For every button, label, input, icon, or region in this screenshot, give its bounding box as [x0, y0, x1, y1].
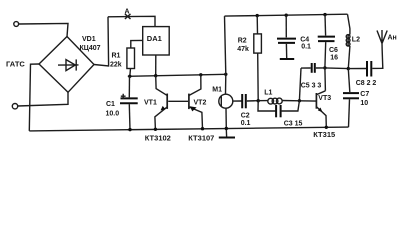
- svg-text:КЦ407: КЦ407: [80, 45, 101, 52]
- capacitor C4 0.1 (with ground): [277, 15, 296, 59]
- svg-text:КТ3107: КТ3107: [188, 134, 214, 143]
- svg-text:0.1: 0.1: [301, 44, 311, 51]
- svg-text:VT1: VT1: [144, 100, 157, 107]
- capacitor C7 10: [343, 69, 359, 128]
- wire DA1 output to +rail: [155, 55, 157, 76]
- svg-text:C7: C7: [360, 91, 369, 98]
- svg-text:C6: C6: [329, 47, 338, 54]
- resistor R2 47k: [254, 16, 262, 101]
- svg-text:C2: C2: [241, 112, 250, 119]
- svg-text:VT3: VT3: [318, 95, 331, 102]
- svg-text:L2: L2: [352, 37, 360, 44]
- svg-text:DA1: DA1: [147, 34, 162, 43]
- transistor VT1 (KT3102, mirrored): [155, 76, 167, 130]
- svg-text:КТ3102: КТ3102: [145, 133, 171, 142]
- IC DA1: [143, 27, 170, 55]
- wire L1/C3 tank to VT3 base: [299, 100, 316, 102]
- antenna: [377, 30, 387, 51]
- svg-text:C4: C4: [300, 37, 309, 44]
- svg-text:C8 2 2: C8 2 2: [356, 80, 377, 87]
- svg-text:10: 10: [360, 100, 368, 107]
- capacitor C8 22 (antenna coupling): [348, 51, 383, 77]
- oscillator node wire C5/C6/VT3 collector: [325, 67, 348, 70]
- svg-text:R1: R1: [112, 53, 121, 60]
- svg-text:47k: 47k: [237, 46, 249, 53]
- svg-text:ГАТС: ГАТС: [6, 60, 25, 69]
- junction dots top rail: [256, 14, 259, 17]
- wire VT1 base to VT2 base: [168, 100, 188, 102]
- transistor VT3 (KT315): [316, 91, 326, 128]
- wire bridge plus (right vertex) to node A line: [94, 17, 109, 66]
- svg-text:КТ315: КТ315: [313, 130, 335, 139]
- bridge rectifier VD1 (diamond): [39, 37, 94, 93]
- +V mid rail: [128, 74, 226, 76]
- capacitor C2 0.1: [242, 94, 258, 108]
- wire bridge minus (left vertex) to ground rail: [29, 64, 39, 131]
- inductor L1: [258, 98, 299, 104]
- diode inside bridge: [58, 59, 79, 70]
- svg-text:VT2: VT2: [194, 99, 207, 106]
- wire top rail to mid rail / microphone: [225, 16, 226, 94]
- inductor L2: [346, 14, 350, 68]
- breaking mark X at node A: [125, 14, 131, 19]
- capacitor C6 16: [318, 15, 335, 68]
- wire VT3 collector: [324, 68, 327, 91]
- ground rail (bottom): [29, 127, 348, 131]
- svg-text:L1: L1: [264, 90, 272, 97]
- svg-text:Ан: Ан: [388, 35, 397, 42]
- junction dots ground rail: [128, 128, 131, 131]
- resistor R1 22k: [127, 40, 143, 76]
- svg-text:M1: M1: [212, 87, 222, 94]
- ground symbol under M1: [219, 129, 235, 138]
- wire terminal X2 to bridge bottom: [18, 92, 68, 106]
- svg-text:C5 3 3: C5 3 3: [301, 82, 322, 89]
- terminal X2 (phone line, bottom): [12, 104, 17, 109]
- svg-text:C3 15: C3 15: [284, 121, 303, 128]
- capacitor C3 15 (tank, parallel with L1): [258, 101, 299, 118]
- svg-text:R2: R2: [238, 37, 247, 44]
- microphone M1: [219, 94, 242, 128]
- svg-text:22k: 22k: [110, 61, 122, 68]
- capacitor C1 10.0 (electrolytic filter): [120, 76, 138, 129]
- svg-text:0.1: 0.1: [241, 120, 251, 127]
- top supply rail (stabilized): [225, 14, 348, 16]
- wire terminal X1 to bridge top: [19, 23, 68, 36]
- svg-text:VD1: VD1: [82, 36, 96, 43]
- terminal X1 (phone line, top): [14, 22, 19, 27]
- svg-text:A: A: [125, 8, 130, 15]
- svg-text:10.0: 10.0: [106, 110, 120, 117]
- capacitor C5 3.3 (feedback): [299, 63, 325, 101]
- node A wire to DA1: [108, 16, 155, 26]
- junction dots on mid rail: [128, 75, 131, 78]
- svg-text:C1: C1: [106, 101, 115, 108]
- transistor VT2 (KT3107, PNP): [189, 75, 203, 129]
- svg-text:16: 16: [330, 55, 338, 62]
